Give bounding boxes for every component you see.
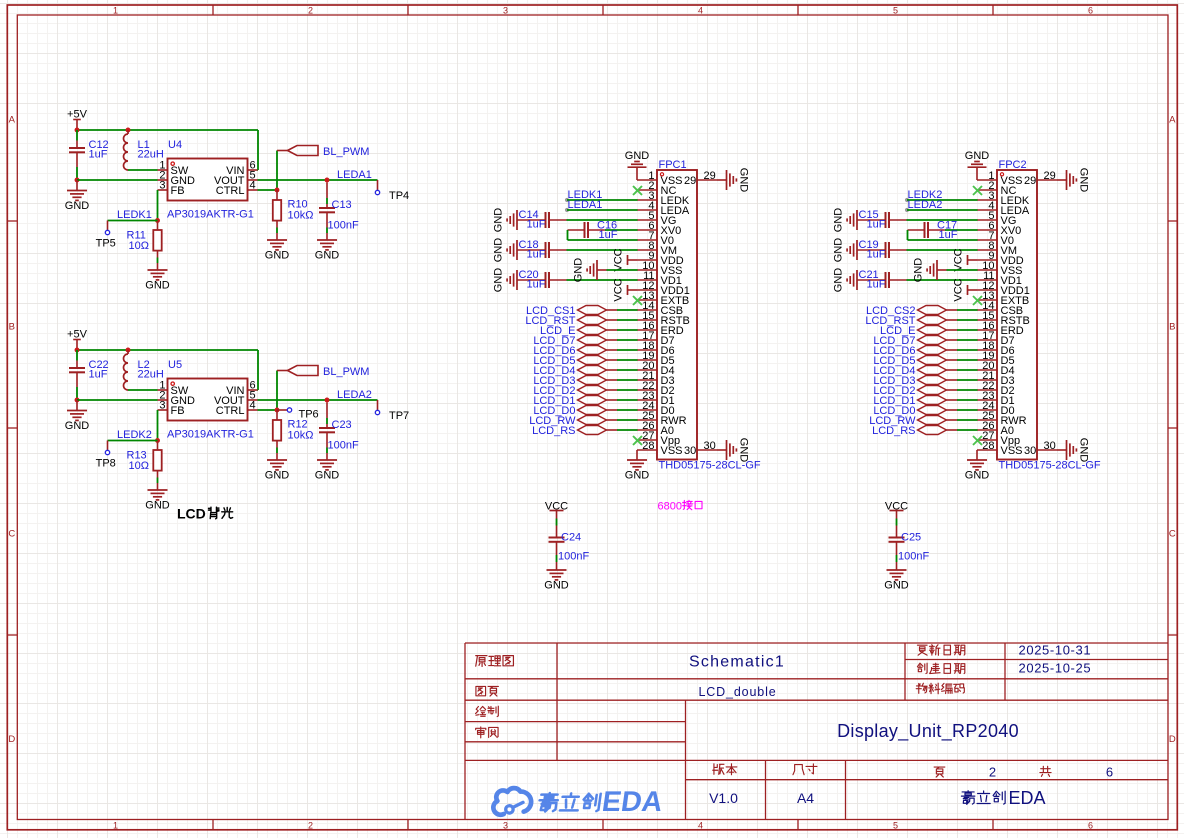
- power flag VCC pin 9: [627, 255, 629, 265]
- ground above pin 1: [968, 166, 987, 168]
- svg-text:1: 1: [113, 5, 118, 15]
- capacitor C20: [517, 279, 546, 281]
- svg-text:10kΩ: 10kΩ: [288, 430, 314, 442]
- pin 6 VIN: [248, 389, 258, 391]
- title label of: [1040, 766, 1051, 776]
- capacitor C25: [889, 537, 905, 539]
- svg-text:1uF: 1uF: [527, 219, 546, 231]
- wire SW: [128, 169, 158, 171]
- capacitor C22: [76, 350, 78, 361]
- svg-text:6: 6: [1088, 5, 1093, 15]
- test point TP4: [377, 180, 379, 190]
- svg-text:1uF: 1uF: [527, 279, 546, 291]
- title label reviewed-by: [476, 727, 486, 738]
- logo JLCEDA: [493, 788, 531, 815]
- pin 25 RWR: [637, 419, 657, 421]
- svg-text:GND: GND: [65, 200, 90, 212]
- title label part number: [916, 683, 927, 693]
- svg-text:29: 29: [704, 170, 716, 182]
- svg-text:LCD_RS: LCD_RS: [872, 425, 915, 437]
- no-connect pin 13: [633, 296, 642, 305]
- resistor R13: [157, 441, 159, 450]
- ground at pin 29: [1057, 179, 1067, 181]
- pin 1 VSS: [977, 179, 997, 181]
- junction FB/R11: [155, 218, 160, 223]
- svg-text:GND: GND: [625, 150, 650, 162]
- svg-text:TP7: TP7: [389, 410, 409, 422]
- net port LCD_RST: [918, 316, 947, 325]
- wire net LEDK1: [108, 220, 158, 222]
- pin 6 XV0: [977, 229, 997, 231]
- wire VIN drop: [257, 130, 259, 170]
- svg-text:1uF: 1uF: [867, 279, 886, 291]
- svg-text:GND: GND: [965, 469, 990, 481]
- wire VIN drop: [257, 350, 259, 390]
- wire FB to LEDK2: [157, 410, 159, 441]
- svg-text:1uF: 1uF: [527, 249, 546, 261]
- svg-text:LEDA1: LEDA1: [568, 199, 603, 211]
- svg-text:LEDA1: LEDA1: [337, 169, 372, 181]
- wire V0 jog: [907, 230, 909, 240]
- svg-text:GND: GND: [493, 238, 505, 263]
- net port LCD_D1: [578, 396, 607, 405]
- net port LCD_D0: [578, 406, 607, 415]
- svg-text:28: 28: [982, 440, 994, 452]
- pin 5 VOUT: [248, 179, 258, 181]
- ground below C22: [76, 400, 78, 411]
- net port LCD_D5: [578, 356, 607, 365]
- pin 29 VSS: [697, 179, 717, 181]
- title label page: [934, 767, 945, 777]
- svg-text:VCC: VCC: [953, 278, 965, 301]
- svg-text:GND: GND: [833, 268, 845, 293]
- wire net LEDA1: [565, 208, 569, 212]
- svg-text:GND: GND: [315, 469, 340, 481]
- pin 3 LEDK: [637, 199, 657, 201]
- svg-text:100nF: 100nF: [328, 440, 359, 452]
- inductor L2: [127, 351, 129, 355]
- svg-text:TP8: TP8: [96, 458, 116, 470]
- power flag VCC pin 9: [967, 255, 969, 265]
- ground left of C21: [856, 270, 858, 290]
- capacitor C23: [326, 403, 328, 419]
- pin 3 LEDK: [977, 199, 997, 201]
- net port LCD_D6: [918, 346, 947, 355]
- pin 1 SW: [158, 389, 168, 391]
- pin 19 D5: [637, 359, 657, 361]
- net port LCD_E: [918, 326, 947, 335]
- ground below C13: [317, 239, 337, 241]
- net port LCD_E: [578, 326, 607, 335]
- wire net BL_PWM stem: [276, 151, 278, 191]
- pin 30 VSS: [1037, 449, 1057, 451]
- title label sheet: [476, 686, 486, 695]
- pin 16 ERD: [977, 329, 997, 331]
- pin 27 Vpp: [977, 439, 997, 441]
- pin 3 FB: [158, 189, 168, 191]
- svg-text:B: B: [9, 322, 15, 333]
- title label update date: [917, 645, 927, 655]
- svg-text:Schematic1: Schematic1: [689, 654, 785, 671]
- pin 4 LEDA: [637, 209, 657, 211]
- pin 6 XV0: [637, 229, 657, 231]
- net port BL_PWM: [288, 366, 319, 376]
- net port LCD_D3: [578, 376, 607, 385]
- svg-text:2: 2: [989, 765, 996, 780]
- svg-text:LCD_double: LCD_double: [699, 685, 777, 699]
- no-connect pin 2: [973, 186, 982, 195]
- wire CTRL: [258, 189, 278, 191]
- svg-text:GND: GND: [265, 469, 290, 481]
- pin 4 CTRL: [248, 409, 258, 411]
- svg-text:EDA: EDA: [600, 786, 665, 818]
- pin 5 VG: [637, 219, 657, 221]
- svg-text:GND: GND: [493, 208, 505, 233]
- pin 12 VDD1: [977, 289, 997, 291]
- capacitor C15: [857, 219, 886, 221]
- junction +5V/L1: [126, 128, 131, 133]
- junction VOUT/C23: [325, 398, 330, 403]
- svg-text:VSS: VSS: [1001, 445, 1023, 457]
- net port LCD_RST: [578, 316, 607, 325]
- pin 25 RWR: [977, 419, 997, 421]
- svg-text:30: 30: [1044, 440, 1056, 452]
- ground at pin 10: [936, 260, 938, 280]
- resistor R11: [157, 221, 159, 230]
- net port LCD_D1: [918, 396, 947, 405]
- wire V0 jog: [567, 230, 569, 240]
- svg-text:VSS: VSS: [661, 445, 683, 457]
- svg-text:BL_PWM: BL_PWM: [323, 146, 369, 158]
- pin 22 D2: [637, 389, 657, 391]
- svg-text:TP5: TP5: [96, 238, 116, 250]
- svg-text:29: 29: [684, 175, 696, 187]
- no-connect pin 27: [633, 436, 642, 445]
- pin 26 A0: [977, 429, 997, 431]
- svg-text:AP3019AKTR-G1: AP3019AKTR-G1: [167, 209, 254, 221]
- wire FB to LEDK1: [157, 190, 159, 221]
- pin 23 D1: [637, 399, 657, 401]
- svg-text:LEDA2: LEDA2: [908, 199, 943, 211]
- svg-text:GND: GND: [833, 238, 845, 263]
- svg-text:C23: C23: [332, 419, 352, 431]
- wire +5V rail: [77, 349, 258, 351]
- net port LCD_D7: [918, 336, 947, 345]
- svg-text:4: 4: [698, 5, 703, 15]
- svg-text:D: D: [8, 734, 15, 745]
- net port LCD_D4: [918, 366, 947, 375]
- pin 13 EXTB: [977, 299, 997, 301]
- ground at pin 28: [976, 450, 978, 460]
- svg-text:CTRL: CTRL: [216, 405, 245, 417]
- svg-text:GND: GND: [573, 258, 585, 283]
- pin 10 VSS: [977, 269, 997, 271]
- svg-text:V1.0: V1.0: [709, 790, 738, 806]
- test point TP6: [277, 409, 287, 411]
- svg-text:28: 28: [642, 440, 654, 452]
- capacitor C24: [549, 537, 565, 539]
- pin 16 ERD: [637, 329, 657, 331]
- pin 9 VDD: [977, 259, 997, 261]
- pin 24 D0: [977, 409, 997, 411]
- svg-text:AP3019AKTR-G1: AP3019AKTR-G1: [167, 429, 254, 441]
- pin 8 VM: [637, 249, 657, 251]
- capacitor C14: [517, 219, 546, 221]
- wire CTRL: [258, 409, 278, 411]
- pin 18 D6: [977, 349, 997, 351]
- test point TP7: [377, 400, 379, 410]
- svg-text:BL_PWM: BL_PWM: [323, 366, 369, 378]
- title label drawn-by: [476, 706, 486, 716]
- svg-text:100nF: 100nF: [898, 551, 929, 563]
- net port LCD_RW: [578, 416, 607, 425]
- ground at pin 28: [636, 450, 638, 460]
- svg-text:GND: GND: [1077, 438, 1089, 463]
- pin 12 VDD1: [637, 289, 657, 291]
- svg-text:U4: U4: [168, 139, 182, 151]
- capacitor C17: [908, 229, 925, 231]
- svg-text:10Ω: 10Ω: [129, 460, 149, 472]
- pin 15 RSTB: [637, 319, 657, 321]
- svg-text:1uF: 1uF: [89, 148, 108, 160]
- capacitor C13: [326, 183, 328, 199]
- svg-text:VCC: VCC: [613, 248, 625, 271]
- svg-text:GND: GND: [544, 579, 569, 591]
- net port BL_PWM: [288, 146, 319, 156]
- svg-text:5: 5: [893, 820, 898, 830]
- pin 10 VSS: [637, 269, 657, 271]
- svg-text:GND: GND: [145, 279, 170, 291]
- pin 2 GND: [158, 399, 168, 401]
- ground left of C19: [856, 240, 858, 260]
- ground at pin 29: [717, 179, 727, 181]
- junction +5V/C22: [75, 348, 80, 353]
- svg-text:1uF: 1uF: [867, 219, 886, 231]
- capacitor C19: [857, 249, 886, 251]
- svg-text:VCC: VCC: [953, 248, 965, 271]
- title label version: [713, 764, 724, 775]
- svg-text:B: B: [1169, 322, 1175, 333]
- svg-text:30: 30: [684, 445, 696, 457]
- svg-text:1uF: 1uF: [867, 249, 886, 261]
- svg-text:4: 4: [250, 400, 256, 412]
- svg-text:C24: C24: [561, 532, 581, 544]
- svg-text:6: 6: [1088, 820, 1093, 830]
- pin 4 CTRL: [248, 189, 258, 191]
- title block grid: [464, 643, 466, 820]
- op-amp/regulator U4 body: [168, 159, 248, 201]
- test point TP8: [107, 441, 109, 451]
- power flag VCC pin 12: [967, 285, 969, 295]
- pin 17 D7: [637, 339, 657, 341]
- svg-text:C: C: [1169, 529, 1176, 540]
- svg-text:LEDK1: LEDK1: [117, 209, 152, 221]
- pin 28 VSS: [637, 449, 657, 451]
- wire net LEDK1: [565, 198, 569, 202]
- pin 13 EXTB: [637, 299, 657, 301]
- connector FPC2 body: [997, 170, 1037, 460]
- svg-text:Display_Unit_RP2040: Display_Unit_RP2040: [837, 721, 1019, 742]
- net port LCD_D2: [918, 386, 947, 395]
- svg-text:6: 6: [1106, 765, 1113, 780]
- svg-text:A4: A4: [797, 790, 814, 806]
- svg-text:A: A: [1169, 115, 1176, 126]
- junction CTRL/R12: [275, 408, 280, 413]
- pin 24 D0: [637, 409, 657, 411]
- pin 2 GND: [158, 179, 168, 181]
- svg-text:GND: GND: [145, 499, 170, 511]
- pin 20 D4: [977, 369, 997, 371]
- pin 11 VD1: [637, 279, 657, 281]
- wire net LEDK2: [108, 440, 158, 442]
- pin 11 VD1: [977, 279, 997, 281]
- svg-text:3: 3: [503, 5, 508, 15]
- resistor R12: [276, 410, 278, 420]
- svg-text:FPC2: FPC2: [999, 159, 1027, 171]
- net port LCD_D2: [578, 386, 607, 395]
- pin 22 D2: [977, 389, 997, 391]
- no-connect pin 2: [633, 186, 642, 195]
- ground below R11: [148, 269, 168, 271]
- svg-text:FPC1: FPC1: [659, 159, 687, 171]
- title label size: [793, 765, 804, 775]
- pin 3 FB: [158, 409, 168, 411]
- ground left of C20: [516, 270, 518, 290]
- pin 2 NC: [637, 189, 657, 191]
- net port LCD_CS1: [578, 306, 607, 315]
- svg-text:GND: GND: [737, 438, 749, 463]
- net port LCD_RS: [578, 426, 607, 435]
- pin 18 D6: [637, 349, 657, 351]
- net port LCD_D3: [918, 376, 947, 385]
- ground above pin 1: [628, 166, 647, 168]
- svg-text:LEDA2: LEDA2: [337, 389, 372, 401]
- svg-text:GND: GND: [493, 268, 505, 293]
- svg-text:2025-10-31: 2025-10-31: [1019, 643, 1092, 658]
- junction GND rail/C12: [75, 178, 80, 183]
- pin 19 D5: [977, 359, 997, 361]
- pin 1 SW: [158, 169, 168, 171]
- svg-text:LCD_RS: LCD_RS: [532, 425, 575, 437]
- no-connect pin 13: [973, 296, 982, 305]
- pin 6 VIN: [248, 169, 258, 171]
- pin 8 VM: [977, 249, 997, 251]
- svg-text:GND: GND: [315, 249, 340, 261]
- ground at pin 10: [596, 260, 598, 280]
- svg-text:GND: GND: [884, 579, 909, 591]
- pin 7 V0: [977, 239, 997, 241]
- pin 29 VSS: [1037, 179, 1057, 181]
- svg-text:VCC: VCC: [613, 278, 625, 301]
- pin 14 CSB: [977, 309, 997, 311]
- pin 5 VG: [977, 219, 997, 221]
- svg-text:29: 29: [1024, 175, 1036, 187]
- ground below R13: [148, 489, 168, 491]
- junction CTRL/R10: [275, 188, 280, 193]
- junction FB/R13: [155, 438, 160, 443]
- svg-text:FB: FB: [171, 185, 185, 197]
- svg-text:GND: GND: [625, 469, 650, 481]
- svg-text:29: 29: [1044, 170, 1056, 182]
- svg-text:C25: C25: [901, 532, 921, 544]
- capacitor C12: [76, 130, 78, 141]
- svg-text:2: 2: [308, 5, 313, 15]
- pin 21 D3: [977, 379, 997, 381]
- op-amp/regulator U5 body: [168, 379, 248, 421]
- net port LCD_CS2: [918, 306, 947, 315]
- svg-text:GND: GND: [833, 208, 845, 233]
- ground left of C18: [516, 240, 518, 260]
- svg-text:100nF: 100nF: [328, 220, 359, 232]
- wire net LEDA2: [905, 208, 909, 212]
- svg-text:1uF: 1uF: [89, 368, 108, 380]
- svg-text:U5: U5: [168, 359, 182, 371]
- svg-text:GND: GND: [965, 150, 990, 162]
- pin 30 VSS: [697, 449, 717, 451]
- svg-text:10Ω: 10Ω: [129, 240, 149, 252]
- ground at pin 30: [717, 449, 727, 451]
- svg-text:3: 3: [503, 820, 508, 830]
- svg-text:4: 4: [250, 180, 256, 192]
- svg-text:EDA: EDA: [1009, 788, 1046, 808]
- wire VOUT to LEDA2: [258, 399, 378, 401]
- svg-text:C13: C13: [332, 199, 352, 211]
- svg-text:4: 4: [698, 820, 703, 830]
- net port LCD_D5: [918, 356, 947, 365]
- junction +5V/L2: [126, 348, 131, 353]
- net port LCD_D6: [578, 346, 607, 355]
- wire net BL_PWM stem: [276, 371, 278, 411]
- pin 15 RSTB: [977, 319, 997, 321]
- wire SW: [128, 389, 158, 391]
- svg-text:3: 3: [159, 400, 165, 412]
- svg-text:30: 30: [1024, 445, 1036, 457]
- svg-text:2025-10-25: 2025-10-25: [1019, 661, 1092, 676]
- ground below C24: [547, 569, 567, 571]
- pin 23 D1: [977, 399, 997, 401]
- svg-text:GND: GND: [1077, 168, 1089, 193]
- wire GND rail to pin2: [77, 179, 158, 181]
- svg-text:A: A: [9, 115, 16, 126]
- net port LCD_RS: [918, 426, 947, 435]
- svg-text:LCD: LCD: [177, 506, 206, 522]
- ground below R12: [267, 459, 287, 461]
- net port LCD_D7: [578, 336, 607, 345]
- pin 4 LEDA: [977, 209, 997, 211]
- svg-text:5: 5: [893, 5, 898, 15]
- pin 7 V0: [637, 239, 657, 241]
- svg-text:1: 1: [113, 820, 118, 830]
- test point TP5: [107, 221, 109, 231]
- pin 27 Vpp: [637, 439, 657, 441]
- svg-text:FB: FB: [171, 405, 185, 417]
- pin 1 VSS: [637, 179, 657, 181]
- svg-text:D: D: [1169, 734, 1176, 745]
- pin 17 D7: [977, 339, 997, 341]
- wire GND rail to pin2: [77, 399, 158, 401]
- svg-text:CTRL: CTRL: [216, 185, 245, 197]
- svg-text:GND: GND: [65, 420, 90, 432]
- junction +5V/C12: [75, 128, 80, 133]
- svg-text:2: 2: [308, 820, 313, 830]
- svg-text:3: 3: [159, 180, 165, 192]
- svg-text:GND: GND: [913, 258, 925, 283]
- pin 20 D4: [637, 369, 657, 371]
- power flag VCC pin 12: [627, 285, 629, 295]
- junction GND rail/C22: [75, 398, 80, 403]
- connector FPC1 body: [657, 170, 697, 460]
- title label create date: [917, 663, 927, 673]
